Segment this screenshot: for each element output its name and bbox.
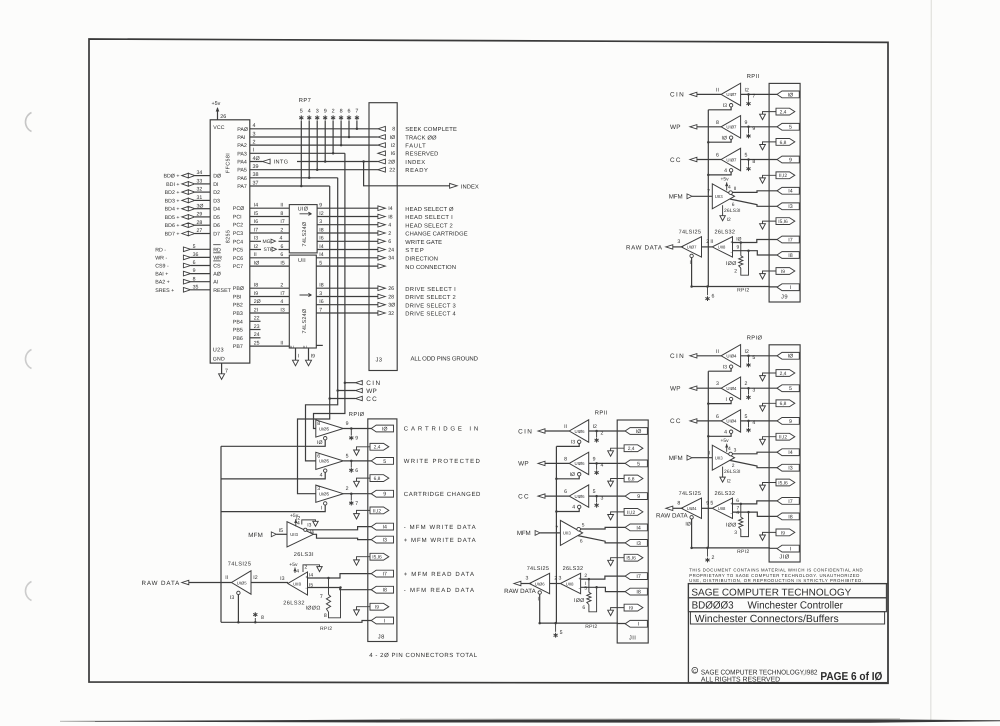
svg-text:+: + [305,574,308,579]
wire RP12 bus J11 [539,622,625,624]
svg-text:WP: WP [366,388,377,395]
svg-text:8: 8 [564,456,567,462]
svg-text:6: 6 [348,108,351,114]
wire PB2 [250,299,289,305]
note all odd pins ground [411,355,479,362]
pin PB3 [233,311,243,317]
signal WP J11 [518,461,569,468]
wire U113 outA J9 [732,191,777,193]
svg-text:JIØ: JIØ [779,554,789,561]
junction dot res J10 [740,503,743,506]
svg-text:4: 4 [297,521,300,527]
wire enable bus J8 [220,446,222,622]
svg-text:3: 3 [316,108,319,114]
svg-text:I4: I4 [254,203,258,209]
svg-text:34: 34 [197,170,203,176]
scanned page right edge [930,0,933,722]
svg-text:I2: I2 [727,217,731,223]
svg-text:MFM: MFM [248,532,262,539]
J3 output pin 3Ø DRIVE SELECT 3 [378,302,456,309]
svg-text:32: 32 [388,311,394,317]
svg-text:II: II [280,341,283,347]
J10 pin 10 [777,352,799,359]
J11 pin 13 [625,540,647,547]
svg-text:WR -: WR - [155,255,167,261]
J8 pin I7 + MFM READ DATA [371,570,474,578]
wire gate to U118 J11 [550,583,561,585]
J3 output pin 2 CHANGE CARTRIDGE [378,231,468,238]
svg-text:Winchester Connectors/Buffers: Winchester Connectors/Buffers [695,614,839,625]
J3 input pin IØ TRACK ØØ [378,134,437,141]
J8 ground pin II,I2 [354,507,389,519]
svg-text:6,8: 6,8 [628,476,635,482]
svg-text:RPI2: RPI2 [737,549,749,555]
svg-text:28: 28 [197,220,203,226]
svg-text:I9: I9 [254,291,258,297]
svg-text:24: 24 [254,332,260,338]
svg-text:4: 4 [724,168,727,174]
J9 pin 1 [777,284,799,291]
junction dot res top [327,577,330,580]
signal CIN J11 [518,428,569,435]
wire PA4 to J3 pin 20 [250,156,378,162]
svg-text:CIN: CIN [518,428,532,435]
J9 pin 17 [777,236,799,243]
receiver U118 26LS32 [280,572,308,595]
wire RP12 bus J8 [221,621,371,623]
svg-text:2: 2 [346,486,349,492]
svg-text:8: 8 [340,108,343,114]
svg-text:FFC58I: FFC58I [226,153,232,173]
svg-text:4: 4 [572,505,575,511]
J10 pin 13 [777,464,799,471]
svg-text:BD7 +: BD7 + [165,232,180,238]
svg-text:I9: I9 [311,353,315,359]
svg-text:RAW DATA: RAW DATA [626,244,663,251]
svg-text:2: 2 [601,430,604,436]
input SRES + [155,284,210,293]
svg-text:2: 2 [280,283,283,289]
svg-text:II,I2: II,I2 [779,173,787,179]
svg-text:I4: I4 [309,572,313,578]
junction dot CC [328,397,331,400]
svg-text:I3: I3 [382,538,386,544]
svg-text:6: 6 [732,202,735,208]
J9 ground pin 2,4 [760,108,795,119]
wire PA6 to WP net [250,172,338,178]
svg-text:4 - 2Ø PIN CONNECTORS TOTAL: 4 - 2Ø PIN CONNECTORS TOTAL [369,652,478,659]
pin PB2 [233,303,243,309]
J3 input pin 22 READY [378,167,428,174]
wire U113 outB J9 [730,199,777,208]
svg-text:31: 31 [197,195,203,201]
RP11 pin 3 J11 [595,503,599,508]
label 74LS125 J9 [679,230,702,236]
svg-text:I8: I8 [319,227,323,233]
svg-text:I3: I3 [723,103,727,109]
svg-text:3: 3 [559,576,562,582]
svg-text:2Ø: 2Ø [388,159,395,165]
svg-text:+ MFM READ DATA: + MFM READ DATA [404,571,474,578]
pin D2 [213,190,220,196]
receiver U118 J10 [710,498,733,518]
svg-text:I2: I2 [253,575,257,581]
svg-text:I4: I4 [319,244,323,250]
svg-text:UIØ6: UIØ6 [575,494,586,499]
svg-text:39: 39 [253,164,259,170]
wire PC6 [250,252,289,258]
svg-text:DRIVE SELECT I: DRIVE SELECT I [405,286,456,293]
wire U105d-U118 [251,582,288,584]
svg-text:II: II [734,186,737,192]
RP11 pin 2 J11 [595,438,599,443]
svg-text:CIN: CIN [366,380,380,387]
svg-text:USE, DISTRIBUTION, OR REPRODUC: USE, DISTRIBUTION, OR REPRODUCTION IS ST… [689,578,863,583]
wire PA3 to CIN net [250,148,345,154]
wire U106 WP enable J11 [556,476,579,479]
svg-text:PB4: PB4 [233,319,243,325]
J8 pin 9 CARTRIDGE CHANGED [371,490,481,498]
svg-text:D4: D4 [213,207,220,213]
svg-text:RPI2: RPI2 [585,624,597,630]
svg-text:I3: I3 [230,595,234,601]
svg-text:I: I [253,148,255,154]
svg-text:SAGE COMPUTER TECHNOLOGY: SAGE COMPUTER TECHNOLOGY [691,588,851,599]
svg-text:9: 9 [706,500,709,506]
buffer U107 d J9 [677,237,709,266]
junction dot INDEX branch [362,160,365,163]
wire U11 out I8 [316,283,378,289]
svg-text:I2: I2 [391,143,395,149]
J11 pin 14 [625,524,647,531]
signal RAW DATA J10 [656,506,689,520]
J8 ground pin I5,I6 [354,553,389,565]
label 74LS125 J11 [527,566,550,572]
svg-text:I7: I7 [280,291,284,297]
svg-text:I4: I4 [388,206,392,212]
svg-text:PC5: PC5 [233,248,243,254]
wire U11 out I6 [316,299,378,305]
svg-text:I2: I2 [727,478,731,484]
svg-text:3: 3 [526,576,529,582]
svg-text:IØ: IØ [254,261,259,267]
svg-text:D3: D3 [213,198,220,204]
svg-text:AØ: AØ [213,272,221,278]
wire net WP trunk [306,178,338,461]
label 26LS32 J8 [283,600,305,606]
svg-text:7: 7 [752,94,755,100]
svg-text:II,I2: II,I2 [373,508,381,514]
wire U107 CC enable J9 [708,172,731,175]
svg-text:IØ: IØ [788,92,794,98]
svg-text:IØ: IØ [570,472,575,478]
svg-text:NO CONNECTION: NO CONNECTION [405,264,456,271]
svg-text:I2: I2 [593,424,597,430]
svg-text:SEEK COMPLETE: SEEK COMPLETE [405,126,457,133]
pin PA2 [237,143,247,149]
wire U107 WP out J9 [741,126,778,134]
svg-text:DØ: DØ [213,174,221,180]
svg-text:I6: I6 [254,219,258,225]
wire U104 CC out J10 [741,420,778,428]
svg-text:22: 22 [389,168,395,174]
wire RP12 bus J9 [691,286,777,288]
resistor 100ohm J11 [574,579,598,612]
svg-text:I8: I8 [636,590,640,596]
svg-text:5: 5 [745,414,748,420]
wire PC4 [250,236,289,245]
pin PA0 [237,127,248,133]
svg-text:WP: WP [670,386,681,393]
RP10 pin 3 J10 [746,395,750,400]
connector J3 [369,103,397,371]
J10 pin 14 [777,449,799,456]
svg-text:26LS3I: 26LS3I [724,208,741,214]
signal MFM J9 [669,189,713,201]
svg-text:BD2 +: BD2 + [165,190,180,196]
pin PC3 [233,231,243,237]
svg-text:5: 5 [319,261,322,267]
svg-text:HEAD SELECT I: HEAD SELECT I [405,214,453,221]
svg-text:-: - [305,586,307,592]
svg-text:26: 26 [220,114,226,120]
U113 bubble J10 [729,447,737,456]
svg-text:2: 2 [712,555,715,561]
pin PA7 [237,184,247,190]
svg-text:I2: I2 [296,515,300,521]
svg-text:DRIVE SELECT 3: DRIVE SELECT 3 [405,302,455,309]
wire PC3 [250,227,289,233]
input BA2 + [155,276,210,285]
svg-text:I: I [638,622,639,628]
svg-text:HEAD SELECT Ø: HEAD SELECT Ø [405,206,454,213]
wire PA7 to CC net [250,180,330,186]
svg-text:38: 38 [253,172,259,178]
pin PA6 [237,176,247,182]
svg-text:RESET: RESET [213,288,231,294]
buffer BD2 [165,187,211,196]
RP12 pin 2 J10 [705,547,714,563]
svg-text:9: 9 [193,268,196,274]
wire gate to U118 J9 [702,246,713,248]
buffer U107 CIN J9 [716,83,749,109]
svg-text:4Ø: 4Ø [253,156,261,162]
IC U23 label VCC [213,125,225,131]
pin D1 [213,182,218,188]
svg-text:3Ø: 3Ø [197,203,204,209]
IC U23 label FFC58I [226,153,232,173]
wire U104 d enable J10 [690,519,693,549]
svg-text:CC: CC [366,396,377,403]
buffer U105 a [316,420,349,446]
receiver U118 J11 [559,573,582,593]
svg-text:I3: I3 [636,541,640,547]
svg-text:INTG: INTG [274,160,289,166]
page number [820,671,882,683]
buffer U105 b [316,452,349,478]
J3 input pin I2 FAULT [378,143,426,150]
svg-text:IØ: IØ [317,440,322,446]
svg-text:I: I [384,618,385,624]
junction dot CIN [344,381,347,384]
svg-text:37: 37 [253,180,259,186]
svg-text:4: 4 [320,473,323,479]
ground U11 pin 1 [293,348,300,366]
svg-text:RPI2: RPI2 [320,626,332,632]
wire -MFM read J11 [581,581,626,592]
svg-text:I5,I6: I5,I6 [626,556,636,562]
svg-text:3: 3 [752,388,755,394]
svg-text:RD -: RD - [155,247,166,253]
svg-text:BDØØØ3: BDØØØ3 [692,601,734,612]
power +5v U113 J10 [721,438,732,452]
RP10 pin 6 [349,468,353,473]
svg-text:STEP: STEP [405,247,424,254]
label 74LS125 J10 [679,491,702,497]
svg-text:23: 23 [254,324,260,330]
svg-text:I5,I6: I5,I6 [372,555,382,561]
signal MFM input J8 [248,528,287,539]
svg-text:IØ: IØ [382,426,388,432]
J11 pin 9 [625,493,647,500]
svg-text:PCI: PCI [233,215,242,221]
svg-text:I9: I9 [629,606,633,612]
wire +MFM read J11 [581,573,626,579]
svg-text:I3: I3 [723,364,727,370]
svg-text:6: 6 [280,252,283,258]
title row sheet [690,612,884,625]
svg-text:IØ: IØ [636,429,642,435]
svg-text:8: 8 [317,421,320,427]
border frame [89,39,888,683]
svg-text:5: 5 [560,630,563,636]
svg-text:II: II [710,239,713,245]
svg-text:I5,I6: I5,I6 [778,480,788,486]
svg-text:E: E [290,345,296,348]
wire U106 CC enable J11 [556,509,579,512]
svg-text:6: 6 [388,239,391,245]
svg-text:II: II [225,575,228,581]
ground at U23 pin 7 [219,363,228,379]
RP12 pin 8 [253,612,264,623]
svg-text:8: 8 [677,500,680,506]
wire enable bus J9 [707,110,710,287]
svg-text:+5v: +5v [212,101,221,107]
svg-text:SAGE COMPUTER TECHNOLOGY,I982: SAGE COMPUTER TECHNOLOGY,I982 [701,669,818,676]
svg-text:32: 32 [197,187,203,193]
svg-text:I5: I5 [254,211,258,217]
wire U104 WP out J10 [741,387,778,395]
svg-text:6,8: 6,8 [780,401,787,407]
svg-text:I7: I7 [788,237,792,243]
signal MFM J10 [669,450,713,462]
power +5v U113 J9 [721,177,732,191]
RP10 pin 9 [349,436,353,441]
svg-text:4: 4 [388,223,391,229]
svg-text:4: 4 [724,430,727,436]
svg-text:J3: J3 [376,357,383,364]
resistor 100ohm J9 [726,243,750,276]
svg-text:+5v: +5v [289,562,298,568]
RP11 pin 4 J11 [595,470,599,475]
U11 enable pins [290,345,323,348]
svg-text:5: 5 [710,500,713,506]
pin PC6 [233,256,243,262]
svg-text:9: 9 [383,492,386,498]
wire PA2 [250,140,378,146]
svg-text:3: 3 [317,486,320,492]
wire U105 b enable [221,472,325,479]
RP11 pin 8 J9 [746,166,750,171]
svg-text:2: 2 [706,239,709,245]
resistor 100ohm J10 [726,504,750,537]
J11 pin 17 [625,573,647,580]
svg-text:IØ: IØ [685,521,690,527]
svg-text:MFM: MFM [669,194,683,201]
wire enable bus J10 [707,371,710,548]
pin AØ [213,272,221,278]
svg-text:UII3: UII3 [715,456,723,461]
svg-text:I5,I6: I5,I6 [778,219,788,225]
driver U113 26LS31 [287,522,314,558]
disclaimer text [689,568,863,583]
wire PA1 [250,131,378,137]
power +5v at U113 [290,513,300,526]
svg-text:I: I [538,597,539,603]
signal CC J11 [518,493,569,500]
node CIN [345,380,381,387]
svg-text:UIØ6: UIØ6 [575,461,586,466]
label RP12 J9 [737,287,749,293]
svg-text:+ MFM WRITE DATA: + MFM WRITE DATA [404,537,476,544]
wire PC5 [250,244,289,253]
svg-text:RPIØ: RPIØ [349,411,365,418]
svg-text:I7: I7 [382,572,386,578]
pin D6 [213,223,220,229]
svg-text:I8: I8 [388,214,392,220]
svg-text:26LS3I: 26LS3I [724,469,741,475]
svg-text:26LS32: 26LS32 [283,600,305,606]
wire U11 out 3 [316,291,378,297]
driver U113 J9 [712,184,740,214]
scanner shadow bottom band [60,718,1000,723]
svg-text:5: 5 [637,461,640,467]
J3 input pin I6 RESERVED [378,151,439,158]
svg-text:PB6: PB6 [233,336,243,342]
svg-text:22: 22 [254,316,260,322]
svg-text:2: 2 [745,381,748,387]
svg-text:BD3 +: BD3 + [165,198,180,204]
svg-text:D6: D6 [213,223,220,229]
U113 pin12 gnd [296,515,318,528]
resistor 100ohm RP12 [306,578,342,619]
signal INTG [263,159,289,165]
wire +MFM read J10 [733,498,778,504]
buffer U104 CC J10 [716,410,747,436]
svg-text:PBØ: PBØ [233,286,244,292]
svg-text:IØØ: IØØ [574,598,585,604]
svg-text:J9: J9 [781,294,788,301]
pin PB1 [233,295,242,301]
svg-text:PB2: PB2 [233,303,243,309]
wire PC1 [250,211,289,217]
svg-text:UII8: UII8 [718,245,726,250]
svg-text:PBI: PBI [233,295,242,301]
svg-text:MFM: MFM [517,530,531,537]
svg-text:9: 9 [752,126,755,132]
pin RESET [213,288,231,294]
wire PB0 [250,283,289,289]
